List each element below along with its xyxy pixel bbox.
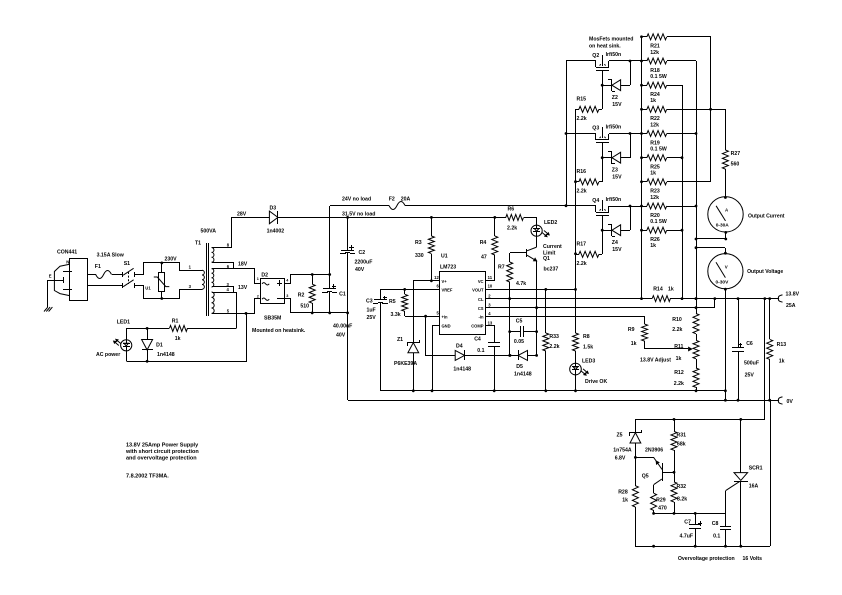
svg-text:VC: VC [478, 279, 484, 284]
svg-text:D5: D5 [516, 364, 523, 370]
terminal 0V [778, 397, 782, 404]
resistor R16 2.2k gate [576, 181, 579, 183]
svg-text:R27: R27 [731, 151, 741, 157]
svg-text:R6: R6 [508, 207, 515, 213]
svg-text:13.8V 25Amp Power Supply: 13.8V 25Amp Power Supply [126, 442, 199, 448]
diode D1 1n4148 [147, 328, 149, 340]
wire 31.5V line [278, 217, 506, 219]
svg-text:R33: R33 [549, 334, 559, 340]
svg-text:1n4148: 1n4148 [514, 372, 532, 378]
resistor R14 1k [652, 296, 670, 302]
svg-text:Q5: Q5 [642, 474, 649, 480]
svg-text:SCR1: SCR1 [749, 466, 763, 472]
svg-text:R24: R24 [650, 92, 660, 98]
svg-text:2: 2 [257, 294, 259, 298]
svg-text:R26: R26 [650, 237, 660, 243]
svg-text:0.1 5W: 0.1 5W [650, 147, 667, 153]
resistor R4 47 [494, 217, 496, 236]
svg-text:16 Volts: 16 Volts [743, 556, 763, 562]
LED2 [531, 225, 542, 236]
svg-text:10: 10 [488, 284, 493, 289]
svg-text:Q1: Q1 [543, 256, 550, 262]
LED1 AC power [126, 328, 128, 340]
svg-text:Output Voltage: Output Voltage [747, 269, 783, 275]
svg-text:1n754A: 1n754A [613, 448, 632, 454]
svg-text:+In: +In [442, 314, 449, 319]
wire [134, 274, 143, 276]
svg-text:R11: R11 [674, 344, 683, 350]
svg-text:F2: F2 [389, 196, 395, 202]
svg-text:N: N [66, 259, 69, 264]
svg-text:CL: CL [478, 297, 484, 302]
svg-text:0-30V: 0-30V [716, 280, 730, 286]
ground rail [380, 390, 725, 392]
wire D4 to D5 [465, 355, 518, 357]
wire [112, 274, 123, 276]
svg-text:R7: R7 [498, 265, 505, 271]
svg-text:1k: 1k [650, 98, 656, 104]
svg-text:LED1: LED1 [117, 320, 130, 326]
wire 24V rail to Q4 drain [405, 205, 596, 207]
SCR1 16A [740, 419, 742, 473]
zener Z3 15V [602, 157, 612, 159]
svg-text:E: E [49, 274, 52, 279]
svg-text:1k: 1k [175, 336, 181, 342]
capacitor C4 0.1 [488, 342, 500, 344]
svg-text:25V: 25V [367, 315, 377, 321]
svg-text:500uF: 500uF [744, 360, 759, 366]
transformer T1 core [206, 243, 208, 316]
svg-text:C3: C3 [366, 298, 373, 304]
wire 18V tap to bridge AC1 [234, 269, 261, 284]
svg-text:MosFets mounted: MosFets mounted [589, 37, 633, 43]
svg-text:15V: 15V [612, 247, 622, 253]
svg-text:15V: 15V [612, 175, 622, 181]
svg-text:D4: D4 [456, 344, 463, 350]
svg-text:Z4: Z4 [612, 240, 618, 246]
MOSFET Q4 Irfi50n [595, 206, 597, 212]
svg-text:Z1: Z1 [397, 337, 403, 343]
meter A Output Current [708, 197, 743, 232]
fuse F1 [96, 271, 112, 279]
svg-text:Drive OK: Drive OK [585, 379, 607, 385]
svg-text:Irfi50n: Irfi50n [606, 52, 622, 58]
svg-text:S1: S1 [124, 261, 130, 267]
svg-text:2.2k: 2.2k [549, 344, 559, 350]
svg-text:8.2k: 8.2k [677, 496, 687, 502]
svg-text:0.1 5W: 0.1 5W [650, 219, 667, 225]
resistor R15 2.2k gate [576, 109, 579, 111]
svg-text:R2: R2 [298, 292, 305, 298]
svg-text:R21: R21 [650, 44, 660, 50]
wire crowbar feed from 13.8V [636, 299, 765, 420]
svg-text:Mounted on heatsink.: Mounted on heatsink. [252, 328, 306, 334]
wire VREF pin [380, 289, 440, 291]
svg-text:V+: V+ [442, 279, 448, 284]
0V loop [348, 400, 778, 402]
svg-text:330: 330 [415, 253, 424, 259]
svg-text:12k: 12k [650, 122, 659, 128]
transistor Q5 2N3906 [635, 457, 654, 459]
svg-text:R23: R23 [650, 189, 660, 195]
svg-text:24V no load: 24V no load [342, 196, 371, 202]
svg-text:R18: R18 [650, 68, 660, 74]
transformer T1 primary [202, 270, 204, 289]
svg-text:2.2k: 2.2k [577, 116, 587, 122]
svg-text:R14: R14 [653, 286, 663, 292]
svg-text:13: 13 [488, 321, 493, 326]
wire switch to varistor rail top [135, 263, 203, 275]
resistor R33 2.2k [545, 289, 547, 333]
svg-text:R9: R9 [628, 327, 635, 333]
svg-text:25A: 25A [786, 303, 796, 309]
svg-text:R22: R22 [650, 116, 660, 122]
svg-text:Q3: Q3 [592, 126, 599, 132]
svg-text:12: 12 [434, 275, 439, 280]
svg-text:R29: R29 [656, 497, 666, 503]
svg-text:1k: 1k [676, 356, 682, 362]
svg-text:3: 3 [286, 294, 288, 298]
zener Z4 15V [602, 230, 612, 232]
svg-text:25V: 25V [745, 373, 755, 379]
svg-text:R1: R1 [172, 318, 179, 324]
wire R6 to LED2 [536, 217, 538, 225]
varistor U1 [161, 263, 163, 273]
svg-text:D2: D2 [261, 272, 268, 278]
svg-text:1k: 1k [668, 286, 674, 292]
svg-text:4.7k: 4.7k [516, 281, 526, 287]
svg-text:T1: T1 [195, 241, 201, 247]
wire pin5 to bridge AC2 [247, 299, 261, 314]
svg-text:Z3: Z3 [612, 167, 618, 173]
wire V meter down to ground rail [725, 289, 727, 400]
wire AC live [88, 274, 96, 276]
svg-text:1k: 1k [631, 341, 637, 347]
IC U1 LM723 [440, 272, 486, 335]
svg-text:15V: 15V [612, 102, 622, 108]
resistor R12 2.2k [696, 359, 698, 368]
resistor R17 2.2k gate [576, 254, 579, 256]
svg-text:16A: 16A [749, 484, 759, 490]
svg-text:1n4148: 1n4148 [157, 352, 175, 358]
svg-text:2.2k: 2.2k [507, 226, 517, 232]
svg-text:R20: R20 [650, 213, 660, 219]
svg-text:20A: 20A [401, 196, 411, 202]
svg-text:Q4: Q4 [592, 198, 599, 204]
svg-text:560: 560 [731, 162, 740, 168]
resistor R23 12k [642, 181, 647, 183]
svg-text:Irfi50n: Irfi50n [606, 197, 622, 203]
svg-text:0V: 0V [787, 399, 794, 405]
wire 12k bus [667, 36, 711, 38]
resistor R26 1k [642, 230, 647, 232]
svg-text:R10: R10 [672, 317, 682, 323]
svg-text:0.1 5W: 0.1 5W [650, 74, 667, 80]
transformer T1 secondary 13V winding [212, 292, 234, 294]
wire 24V rail [330, 205, 389, 207]
svg-text:AC power: AC power [96, 352, 120, 358]
svg-text:with short circuit protection: with short circuit protection [125, 449, 199, 455]
svg-text:40V: 40V [355, 267, 365, 273]
wire 28V to D3 [232, 218, 270, 248]
resistor R2 510 [312, 274, 314, 284]
diode D5 1n4148 [518, 350, 527, 360]
svg-text:1k: 1k [650, 171, 656, 177]
svg-text:SB35M: SB35M [264, 316, 281, 322]
wire LED1 bottom row [127, 314, 247, 362]
svg-text:R19: R19 [650, 140, 660, 146]
resistor R21 12k [642, 36, 647, 38]
svg-text:LED3: LED3 [582, 359, 595, 365]
switch S1 lower pole [122, 283, 124, 288]
svg-text:and overvoltage protection: and overvoltage protection [126, 455, 197, 461]
wire bank left bus [641, 37, 643, 299]
resistor R31 68k [674, 419, 676, 431]
zener Z2 15V [602, 85, 612, 87]
svg-text:C8: C8 [712, 521, 719, 527]
svg-text:LED2: LED2 [544, 220, 557, 226]
svg-text:LM723: LM723 [440, 264, 456, 270]
capacitor C6 500uF [738, 299, 740, 348]
svg-text:0.1: 0.1 [713, 534, 720, 540]
zener Z1 P6KE39A [407, 342, 419, 344]
wire V+ pin [414, 281, 440, 343]
svg-text:C6: C6 [746, 341, 753, 347]
wire drive bus [575, 109, 577, 289]
svg-text:U1: U1 [441, 254, 448, 260]
resistor R28 1k [635, 457, 637, 486]
zener Z5 1n754A 6.8V [635, 419, 637, 433]
svg-text:2200uF: 2200uF [355, 260, 373, 266]
svg-text:68k: 68k [677, 441, 686, 447]
svg-text:CON441: CON441 [57, 250, 77, 256]
svg-text:7.8.2002 TF3MA.: 7.8.2002 TF3MA. [126, 473, 169, 479]
svg-text:P6KE39A: P6KE39A [394, 361, 417, 367]
wire GND pin [433, 326, 440, 391]
capacitor C2 2200uF [347, 217, 349, 250]
svg-text:40.00uF: 40.00uF [333, 324, 352, 330]
svg-text:VOUT: VOUT [472, 288, 484, 293]
svg-text:1.5k: 1.5k [583, 345, 593, 351]
fuse F2 20A [389, 202, 405, 210]
svg-text:R31: R31 [677, 433, 687, 439]
svg-text:bc237: bc237 [544, 267, 559, 273]
svg-text:0-30A: 0-30A [716, 222, 730, 228]
svg-text:2.2k: 2.2k [672, 327, 682, 333]
svg-text:C2: C2 [359, 250, 366, 256]
wire V meter top tap [696, 247, 725, 249]
svg-text:D1: D1 [156, 343, 163, 349]
svg-text:Irfi50n: Irfi50n [606, 125, 622, 131]
svg-text:F1: F1 [95, 264, 101, 270]
svg-text:2.2k: 2.2k [674, 381, 684, 387]
svg-text:0.1: 0.1 [477, 348, 484, 354]
wire LED1 top row [126, 328, 169, 330]
svg-text:12k: 12k [650, 195, 659, 201]
wire crowbar to 0V [770, 400, 772, 546]
resistor R7 4.7k [509, 253, 511, 262]
wire drain bus [566, 61, 568, 206]
svg-text:Q2: Q2 [592, 53, 599, 59]
diode D4 1n4148 [455, 350, 464, 360]
resistor R25 1k [642, 157, 647, 159]
svg-text:R32: R32 [677, 484, 687, 490]
wire AC neutral [88, 285, 123, 287]
wire +In pin [405, 316, 440, 318]
svg-text:1k: 1k [779, 359, 785, 365]
svg-text:510: 510 [300, 304, 309, 310]
svg-text:CS: CS [478, 306, 484, 311]
wire 1k bus [667, 85, 682, 87]
wire - AC earth lead [48, 280, 63, 282]
svg-text:Overvoltage protection: Overvoltage protection [678, 556, 735, 562]
wire VOUT line [485, 289, 576, 291]
svg-text:U1: U1 [145, 286, 151, 291]
resistor R1 1k [169, 325, 187, 331]
wire CS line [486, 299, 715, 308]
resistor R24 1k [642, 85, 647, 87]
wire CL line / 13.8V rail [485, 298, 652, 300]
ground [44, 307, 48, 311]
svg-text:11: 11 [488, 275, 493, 280]
capacitor C8 0.1 [725, 513, 727, 526]
svg-text:1n4002: 1n4002 [267, 228, 285, 234]
svg-text:40V: 40V [336, 333, 346, 339]
resistor R20 0.1 5W [642, 206, 647, 208]
svg-text:2.2k: 2.2k [577, 261, 587, 267]
svg-text:VREF: VREF [442, 288, 453, 293]
wire bridge - output / negative rail [285, 299, 348, 313]
wire COMP pin to C4 [486, 326, 495, 343]
resistor R8 1.5k [575, 289, 577, 333]
svg-text:1uF: 1uF [367, 308, 376, 314]
wire +In to D4 [426, 317, 456, 356]
svg-text:2N3906: 2N3906 [645, 448, 663, 454]
svg-text:12k: 12k [650, 50, 659, 56]
wire SCR gate line [654, 513, 726, 515]
meter V Output Voltage [708, 254, 743, 289]
svg-text:C5: C5 [516, 318, 523, 324]
svg-text:R3: R3 [415, 240, 422, 246]
switch S1 upper pole [122, 272, 124, 277]
svg-text:R15: R15 [577, 97, 587, 103]
svg-text:0.05: 0.05 [514, 339, 524, 345]
transformer T1 secondary 28V winding [212, 247, 232, 249]
wire R22 row to R27 [667, 109, 725, 111]
svg-text:R8: R8 [583, 334, 590, 340]
svg-text:1n4148: 1n4148 [453, 367, 471, 373]
MOSFET Q3 Irfi50n [566, 133, 596, 135]
resistor R13 1k [769, 299, 771, 339]
svg-text:R28: R28 [618, 489, 628, 495]
resistor R6 2.2k [506, 214, 524, 220]
capacitor C3 1uF [380, 289, 382, 300]
wire A meter to output node [725, 232, 727, 239]
svg-text:13V: 13V [238, 285, 248, 291]
capacitor C1 40000uF [329, 274, 331, 289]
capacitor C5 0.05 [510, 331, 520, 333]
wire 13V tap down to R1 [234, 293, 237, 329]
svg-text:13.8V: 13.8V [786, 292, 800, 298]
transistor Q1 bc237 [536, 236, 538, 247]
svg-text:R16: R16 [577, 169, 587, 175]
resistor R27 560 [725, 109, 727, 150]
svg-text:230V: 230V [165, 256, 178, 262]
wire D5 right [528, 355, 537, 357]
svg-text:Output Current: Output Current [748, 214, 785, 220]
potentiometer R11 1k 13.8V Adjust [696, 334, 698, 340]
capacitor C7 4.7uF [695, 513, 697, 525]
svg-text:COMP: COMP [471, 323, 484, 328]
resistor R10 2.2k [693, 314, 699, 334]
svg-text:C4: C4 [474, 336, 481, 342]
switch gang link [128, 272, 130, 284]
wire bridge + output [285, 275, 330, 284]
resistor R19 0.1 5W [642, 133, 647, 135]
svg-text:Z2: Z2 [612, 95, 618, 101]
svg-text:Z5: Z5 [617, 433, 623, 439]
svg-text:1k: 1k [650, 243, 656, 249]
svg-text:1: 1 [257, 277, 259, 281]
svg-text:6.8V: 6.8V [615, 455, 626, 461]
connector CON441 [70, 259, 88, 301]
resistor R22 12k [642, 109, 647, 111]
svg-text:-In: -In [478, 314, 484, 319]
wire R9 to wiper of R11 [645, 348, 688, 350]
resistor R29 470 [651, 493, 657, 510]
svg-text:2.2k: 2.2k [577, 188, 587, 194]
svg-text:18V: 18V [238, 262, 248, 268]
svg-text:GND: GND [442, 323, 451, 328]
resistor R9 1k [644, 316, 646, 324]
wire 0.1 bus [667, 60, 696, 62]
svg-text:R4: R4 [480, 240, 487, 246]
svg-text:3.15A Slow: 3.15A Slow [97, 252, 125, 258]
svg-text:R13: R13 [777, 342, 787, 348]
svg-text:500VA: 500VA [201, 229, 217, 235]
svg-text:R12: R12 [674, 370, 684, 376]
wire switch to varistor rail bottom [135, 286, 203, 299]
resistor R5 3.3k [404, 289, 406, 294]
terminal 13.8V 25A [778, 295, 782, 302]
resistor R18 0.1 5W [642, 60, 647, 62]
wire 24V riser [329, 206, 331, 274]
diode D3 1n4002 [269, 211, 278, 224]
svg-text:1k: 1k [622, 497, 628, 503]
wire -In line [485, 316, 645, 318]
svg-text:R5: R5 [389, 299, 396, 305]
svg-text:13.8V Adjust: 13.8V Adjust [640, 358, 671, 364]
svg-text:R17: R17 [577, 242, 587, 248]
svg-text:D3: D3 [270, 205, 277, 211]
LED3 Drive OK [570, 363, 582, 375]
resistor R32 8.2k [674, 472, 676, 482]
svg-text:Current: Current [543, 244, 562, 250]
svg-text:470: 470 [658, 506, 667, 512]
bridge rectifier D2 SB35M [261, 279, 285, 304]
transformer T1 secondary 18V winding [212, 268, 234, 270]
svg-text:on heat sink.: on heat sink. [589, 44, 621, 50]
svg-text:R25: R25 [650, 165, 660, 171]
resistor R3 330 [431, 217, 433, 236]
svg-text:C7: C7 [684, 520, 691, 526]
svg-text:47: 47 [481, 254, 487, 260]
crowbar ground rail [635, 546, 770, 548]
MOSFET Q2 Irfi50n [566, 60, 596, 62]
svg-text:C1: C1 [339, 292, 346, 298]
svg-text:28V: 28V [237, 211, 247, 217]
svg-text:3.3k: 3.3k [391, 312, 401, 318]
